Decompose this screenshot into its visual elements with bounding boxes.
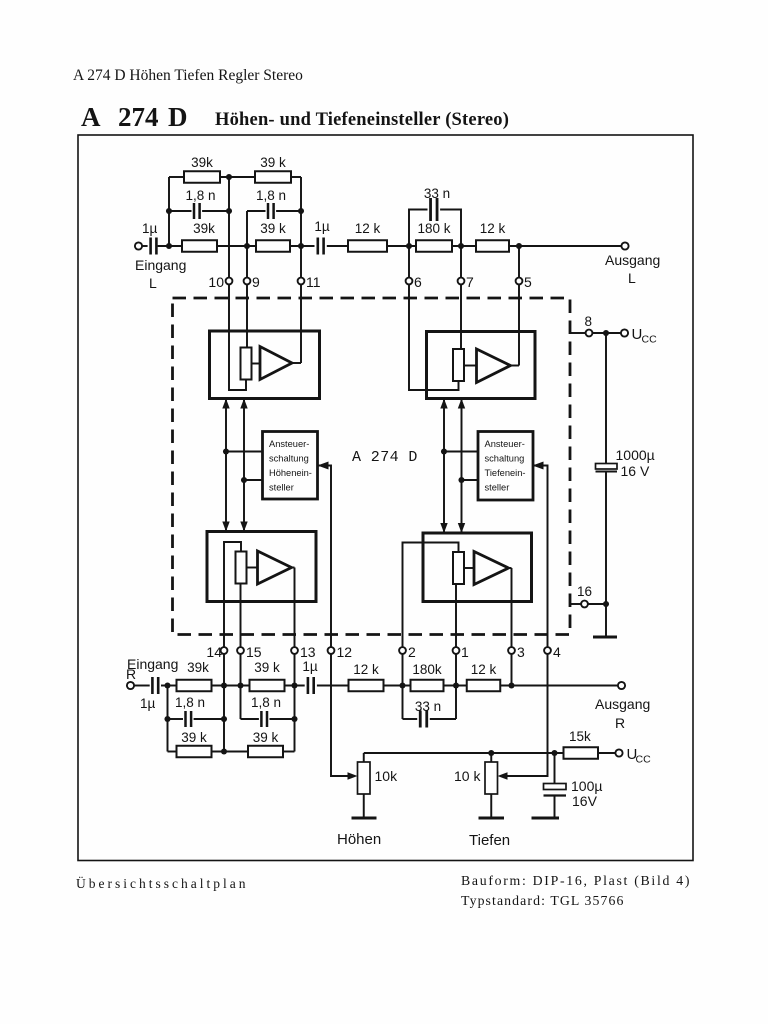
- svg-text:Tiefenein-: Tiefenein-: [485, 468, 526, 478]
- svg-text:Ausgang: Ausgang: [595, 696, 650, 712]
- svg-text:12 k: 12 k: [480, 221, 506, 236]
- svg-text:10k: 10k: [375, 768, 399, 784]
- svg-text:10: 10: [208, 274, 224, 290]
- svg-text:33 n: 33 n: [415, 699, 441, 714]
- svg-text:R: R: [615, 715, 625, 731]
- svg-text:274: 274: [118, 102, 159, 132]
- svg-text:Übersichtsschaltplan: Übersichtsschaltplan: [76, 876, 248, 891]
- svg-text:1,8 n: 1,8 n: [185, 188, 215, 203]
- svg-text:13: 13: [300, 644, 316, 660]
- svg-text:39 k: 39 k: [260, 221, 286, 236]
- svg-text:15: 15: [246, 644, 262, 660]
- svg-text:33 n: 33 n: [424, 186, 450, 201]
- svg-text:CC: CC: [636, 754, 652, 766]
- svg-text:11: 11: [306, 274, 321, 290]
- svg-text:1µ: 1µ: [142, 221, 158, 236]
- svg-text:1000µ: 1000µ: [616, 447, 655, 463]
- svg-text:39 k: 39 k: [181, 730, 207, 745]
- svg-text:10 k: 10 k: [454, 768, 481, 784]
- svg-text:180k: 180k: [412, 662, 442, 677]
- svg-text:16: 16: [577, 584, 592, 599]
- svg-text:steller: steller: [485, 483, 510, 493]
- svg-text:Ansteuer-: Ansteuer-: [269, 439, 309, 449]
- svg-text:steller: steller: [269, 483, 294, 493]
- svg-text:16V: 16V: [572, 793, 598, 809]
- svg-text:Ausgang: Ausgang: [605, 252, 660, 268]
- svg-text:14: 14: [206, 644, 222, 660]
- svg-text:2: 2: [408, 644, 416, 660]
- svg-text:12: 12: [337, 644, 353, 660]
- svg-text:180 k: 180 k: [417, 221, 450, 236]
- svg-text:Ansteuer-: Ansteuer-: [485, 439, 525, 449]
- svg-text:100µ: 100µ: [571, 778, 602, 794]
- svg-text:Bauform: DIP-16, Plast (Bild 4: Bauform: DIP-16, Plast (Bild 4): [461, 873, 691, 889]
- svg-text:1µ: 1µ: [302, 659, 318, 674]
- svg-text:L: L: [149, 275, 157, 291]
- svg-text:schaltung: schaltung: [269, 454, 309, 464]
- svg-text:Eingang: Eingang: [135, 257, 186, 273]
- svg-text:A: A: [81, 102, 101, 132]
- svg-text:Höhen: Höhen: [337, 831, 381, 848]
- svg-text:4: 4: [553, 644, 561, 660]
- svg-text:1µ: 1µ: [140, 696, 156, 711]
- svg-text:5: 5: [524, 274, 532, 290]
- svg-text:12 k: 12 k: [355, 221, 381, 236]
- svg-text:39k: 39k: [187, 660, 209, 675]
- svg-text:39 k: 39 k: [260, 155, 286, 170]
- svg-text:16 V: 16 V: [621, 463, 650, 479]
- svg-text:39 k: 39 k: [253, 730, 279, 745]
- svg-text:39k: 39k: [193, 221, 215, 236]
- svg-text:39 k: 39 k: [254, 660, 280, 675]
- svg-text:12 k: 12 k: [353, 662, 379, 677]
- svg-text:A 274 D Höhen Tiefen Regler St: A 274 D Höhen Tiefen Regler Stereo: [73, 67, 303, 84]
- svg-text:3: 3: [517, 644, 525, 660]
- svg-text:D: D: [168, 102, 188, 132]
- svg-text:1,8 n: 1,8 n: [175, 695, 205, 710]
- svg-text:1,8 n: 1,8 n: [251, 695, 281, 710]
- svg-text:R: R: [126, 666, 136, 682]
- svg-text:Höhen- und Tiefeneinsteller (S: Höhen- und Tiefeneinsteller (Stereo): [215, 110, 509, 130]
- svg-text:L: L: [628, 270, 636, 286]
- svg-text:8: 8: [585, 314, 593, 329]
- svg-text:Tiefen: Tiefen: [469, 832, 510, 849]
- svg-text:12 k: 12 k: [471, 662, 497, 677]
- svg-text:1,8 n: 1,8 n: [256, 188, 286, 203]
- svg-text:Typstandard: TGL 35766: Typstandard: TGL 35766: [461, 893, 624, 908]
- svg-text:schaltung: schaltung: [485, 454, 525, 464]
- svg-text:Höhenein-: Höhenein-: [269, 468, 312, 478]
- svg-text:39k: 39k: [191, 155, 213, 170]
- svg-text:A 274 D: A 274 D: [352, 449, 418, 466]
- svg-text:6: 6: [414, 274, 422, 290]
- svg-text:1µ: 1µ: [314, 219, 330, 234]
- svg-text:7: 7: [466, 274, 474, 290]
- svg-text:15k: 15k: [569, 729, 591, 744]
- svg-text:CC: CC: [642, 334, 658, 346]
- svg-text:1: 1: [461, 644, 469, 660]
- svg-text:9: 9: [252, 274, 260, 290]
